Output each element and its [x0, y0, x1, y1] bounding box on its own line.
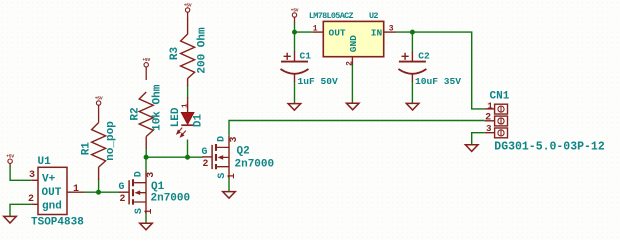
ground (U2 GND): [346, 103, 359, 110]
svg-text:IN: IN: [371, 28, 383, 39]
wire C2 bottom to ground: [411, 82, 413, 104]
power +5V P2 (above R1): [95, 95, 103, 122]
wire node B row (Q1 drain to Q2 gate): [146, 156, 203, 158]
svg-text:G: G: [202, 146, 208, 157]
wire U1 pin1 to Q1 gate (node A): [85, 191, 120, 193]
wire C1 top: [294, 32, 296, 52]
svg-text:200 Ohm: 200 Ohm: [197, 27, 209, 74]
wire Q2 source to ground: [228, 178, 230, 192]
capacitor C2 top lead: [411, 52, 413, 62]
ground (U1 pin2): [4, 216, 17, 223]
capacitor C1 curved plate: [281, 69, 309, 74]
svg-text:2: 2: [346, 61, 355, 66]
wire +5V to U1 pin3: [10, 166, 31, 180]
connector CN1 box pin2: [495, 116, 508, 126]
R1 bottom lead: [98, 167, 100, 180]
svg-text:TSOP4838: TSOP4838: [31, 217, 84, 229]
svg-text:LED: LED: [170, 107, 182, 127]
svg-text:GND: GND: [348, 35, 359, 52]
capacitor C2 plus sign: [402, 53, 409, 60]
capacitor C2 curved plate: [398, 69, 426, 74]
U2 pin 1 OUT: [312, 24, 323, 33]
wire LED cathode to node B: [187, 140, 189, 158]
power +5V P1 (left of U1): [6, 154, 14, 167]
ground (C2): [406, 103, 419, 110]
resistor R2 body: [139, 92, 153, 137]
svg-text:V+: V+: [42, 174, 56, 186]
ground (Q2 source): [223, 192, 236, 199]
svg-text:G: G: [119, 181, 125, 192]
node VIN junction (C2 / U2.IN): [410, 30, 415, 35]
svg-text:10k Ohm: 10k Ohm: [152, 84, 164, 131]
svg-text:2n7000: 2n7000: [151, 193, 191, 205]
wire C1 bottom to ground: [294, 82, 296, 104]
svg-text:Q2: Q2: [237, 146, 250, 158]
LED D1 cathode bar: [181, 124, 194, 126]
power +5V P4 (above R3): [184, 2, 192, 18]
wire C2 top: [411, 32, 413, 52]
wire U1 pin2 to ground: [10, 204, 31, 216]
svg-text:U2: U2: [369, 11, 378, 21]
CN1 pin 2: [485, 112, 495, 123]
svg-text:R1: R1: [80, 142, 92, 156]
U2 pin 2 GND: [346, 57, 355, 66]
svg-text:3: 3: [29, 170, 35, 181]
svg-text:2: 2: [203, 158, 209, 169]
svg-text:3: 3: [389, 24, 394, 33]
connector CN1 screw circle pin3: [498, 130, 504, 136]
wire +5V/C1 junction to U2 OUT pin: [295, 23, 313, 33]
connector CN1 screw circle pin2: [498, 118, 504, 124]
svg-text:R2: R2: [129, 107, 141, 120]
svg-text:LM78L05ACZ: LM78L05ACZ: [309, 11, 354, 21]
transistor Q2 2n7000 symbol: [202, 136, 229, 178]
wire R2 bottom to node B: [145, 148, 147, 157]
svg-text:1: 1: [313, 24, 318, 33]
svg-text:S: S: [133, 208, 144, 214]
svg-text:1: 1: [143, 208, 154, 214]
connector CN1 screw circle pin1: [498, 106, 504, 112]
wire U2 GND pin to ground: [351, 64, 353, 103]
svg-text:S: S: [216, 173, 227, 179]
svg-text:+5V: +5V: [6, 154, 14, 160]
LED D1 triangle: [181, 113, 194, 125]
LED D1 anode lead: [187, 97, 189, 113]
power +5V P3 (above R2): [142, 57, 150, 80]
transistor Q1 2n7000 symbol: [119, 171, 146, 213]
connector CN1 box pin1: [495, 104, 508, 114]
node B junction (R2 / Q1.D): [144, 155, 149, 160]
svg-text:D1: D1: [192, 114, 204, 128]
capacitor C1 top lead: [294, 52, 296, 62]
IC U1 TSOP4838 body: [38, 167, 67, 214]
svg-text:OUT: OUT: [329, 28, 346, 39]
svg-text:3: 3: [486, 123, 492, 134]
wire U2 IN pin to CN1 pin1: [396, 32, 485, 109]
U1 pin 1: [67, 184, 85, 195]
svg-text:1: 1: [73, 184, 79, 195]
svg-text:2n7000: 2n7000: [235, 158, 275, 170]
capacitor C2 top plate: [399, 61, 426, 63]
connector CN1 box pin3: [495, 128, 508, 138]
svg-text:no_pop: no_pop: [105, 121, 117, 161]
node A junction (R1 / U1.1 / Q1.G): [96, 190, 101, 195]
svg-text:+5V: +5V: [291, 7, 299, 13]
svg-text:R3: R3: [169, 47, 181, 61]
svg-text:DG301-5.0-03P-12: DG301-5.0-03P-12: [494, 141, 605, 154]
R3 bottom lead: [187, 78, 189, 86]
capacitor C1 bottom lead: [294, 75, 296, 83]
svg-text:Q1: Q1: [151, 181, 165, 193]
capacitor C2 bottom lead: [411, 75, 413, 83]
resistor R1 body: [92, 123, 106, 168]
wire CN1 pin3 to ground: [472, 133, 485, 145]
svg-text:1: 1: [226, 173, 237, 179]
svg-text:OUT: OUT: [42, 187, 62, 199]
wire R3 bottom to LED anode: [187, 85, 189, 98]
U1 pin 3: [29, 170, 38, 181]
svg-text:1uF 50V: 1uF 50V: [298, 76, 339, 87]
svg-text:D: D: [215, 136, 226, 142]
ground (CN1 pin3): [465, 145, 478, 152]
ground (Q1 source): [140, 223, 153, 230]
regulator U2 LM78L05ACZ body: [323, 21, 383, 56]
U1 pin 2: [28, 194, 38, 205]
LED D1 emission arrows: [177, 128, 186, 137]
svg-text:C2: C2: [418, 51, 430, 62]
svg-text:10uF 35V: 10uF 35V: [415, 76, 461, 87]
CN1 pin 1: [485, 100, 495, 111]
svg-text:2: 2: [120, 193, 126, 204]
U2 pin 3 IN: [384, 24, 396, 33]
svg-text:2: 2: [485, 112, 491, 123]
svg-text:3: 3: [228, 136, 239, 142]
svg-text:gnd: gnd: [42, 200, 62, 212]
wire Q1 drain up to node B: [145, 157, 147, 171]
svg-text:3: 3: [145, 172, 156, 178]
CN1 pin 3: [485, 123, 495, 134]
svg-text:D: D: [132, 171, 143, 177]
node +5V junction (C1 / U2.OUT): [292, 30, 297, 35]
ground (C1): [288, 104, 301, 111]
node B junction at LED cathode: [185, 155, 190, 160]
svg-text:+5V: +5V: [184, 2, 192, 8]
R2 bottom lead: [145, 137, 147, 150]
wire Q2 drain to CN1 pin2: [229, 121, 485, 136]
svg-text:C1: C1: [300, 51, 312, 62]
svg-text:U1: U1: [38, 156, 52, 168]
svg-text:2: 2: [28, 194, 34, 205]
resistor R3 body: [181, 34, 195, 79]
svg-text:1: 1: [181, 103, 189, 108]
svg-text:CN1: CN1: [490, 91, 510, 103]
capacitor C1 top plate: [281, 61, 308, 63]
R3 top lead: [187, 18, 189, 35]
svg-text:+5V: +5V: [142, 57, 150, 63]
wire Q1 source to ground: [145, 213, 147, 223]
wire R1 bottom to node A: [98, 179, 100, 192]
power +5V P5 (above C1 / U2 OUT): [291, 7, 299, 23]
svg-text:+5V: +5V: [95, 95, 103, 101]
capacitor C1 plus sign: [284, 53, 291, 60]
